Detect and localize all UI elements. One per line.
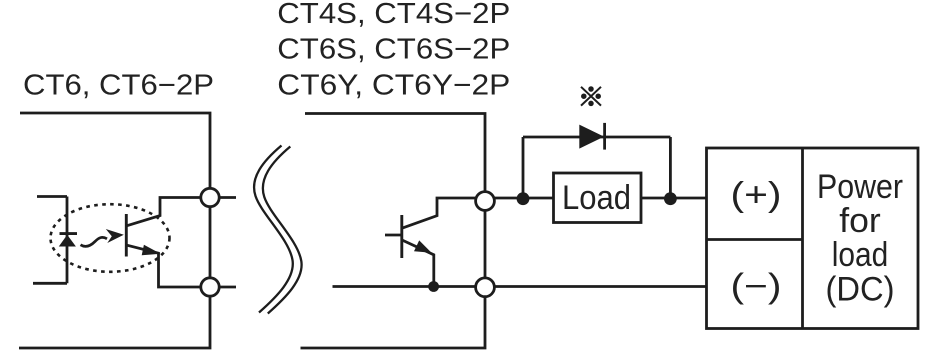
wire LED vertical <box>66 197 69 284</box>
terminal circle (CT6 bottom output) <box>201 278 219 296</box>
light arrow (opto) <box>81 229 124 246</box>
LED (input) <box>59 234 77 247</box>
svg-text:(DC): (DC) <box>826 270 895 308</box>
wire emitter rail <box>333 285 478 288</box>
junction dot (bypass left) <box>517 192 530 205</box>
svg-text:for: for <box>839 202 881 240</box>
device box CT6 outline <box>19 113 210 348</box>
terminal block outline <box>707 148 919 329</box>
svg-text:CT6S, CT6S−2P: CT6S, CT6S−2P <box>277 33 510 65</box>
svg-text:CT6Y, CT6Y−2P: CT6Y, CT6Y−2P <box>277 70 510 102</box>
wire stub from CT6 top terminal <box>219 196 236 199</box>
bypass diode <box>579 123 604 150</box>
output transistor (NPN) <box>385 198 477 287</box>
terminal circle (CT6 top output) <box>201 188 219 206</box>
optocoupler dashed ellipse <box>51 204 170 272</box>
svg-text:(−): (−) <box>731 268 782 306</box>
terminal circle (CT4S bottom output) <box>476 278 495 297</box>
junction dot (emitter to bottom rail) <box>428 281 439 292</box>
phototransistor (left box) <box>126 198 201 288</box>
svg-text:Load: Load <box>562 179 631 217</box>
wire bypass riser right <box>669 137 672 198</box>
terminal circle (CT4S top output) <box>476 192 495 211</box>
LED input lead (bottom) <box>33 282 67 285</box>
svg-text:load: load <box>832 236 889 274</box>
load box <box>554 173 642 223</box>
svg-text:Power: Power <box>817 168 903 206</box>
wire bypass riser left <box>522 137 525 198</box>
break mark (continuation squiggle) <box>254 146 302 314</box>
device box CT4S/CT6S/CT6Y outline <box>301 114 486 349</box>
wire bypass top <box>523 136 670 139</box>
terminal block horizontal divider <box>707 238 803 241</box>
wire top rail (+) <box>494 197 706 200</box>
wire bottom rail (-) <box>495 285 707 288</box>
reference mark ※ <box>581 86 601 106</box>
terminal block vertical divider <box>801 148 804 329</box>
svg-text:(+): (+) <box>731 176 782 214</box>
LED input lead (top) <box>37 195 67 198</box>
junction dot (bypass right) <box>664 192 677 205</box>
svg-text:CT6, CT6−2P: CT6, CT6−2P <box>23 70 214 102</box>
svg-text:CT4S, CT4S−2P: CT4S, CT4S−2P <box>277 0 510 30</box>
wire stub from CT6 bottom terminal <box>219 286 236 289</box>
